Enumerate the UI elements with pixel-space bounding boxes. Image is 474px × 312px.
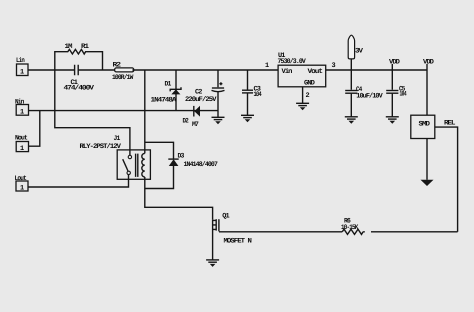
capacitor C1 [64,65,95,93]
terminal Lin [16,57,28,77]
wire Lout to relay switch bottom [28,175,129,188]
wire Nin line [29,110,219,112]
svg-text:220uF/25V: 220uF/25V [185,96,217,104]
ground under C5 [386,117,399,124]
svg-text:REL: REL [444,120,455,128]
wire Nout up to Nin [29,111,40,147]
svg-text:D1: D1 [165,81,172,89]
svg-text:1N4148/4007: 1N4148/4007 [184,161,218,169]
wire SMD to REL [435,120,458,232]
wire rail down to coil [144,70,146,153]
diode D3 [145,142,218,188]
relay core [136,154,138,177]
capacitor C5 [386,70,406,117]
relay J1 box [117,150,150,179]
wire U1 pin2 [302,87,304,103]
svg-text:SMD: SMD [419,121,430,129]
ground under C4 [345,117,358,124]
wire Lin branch down to relay switch [55,70,130,155]
zener diode D1 [151,70,182,111]
ground under C2 [212,111,225,125]
svg-text:Q1: Q1 [222,213,229,221]
svg-text:J1: J1 [114,135,121,143]
svg-text:D2: D2 [183,118,189,126]
svg-text:MOSFET N: MOSFET N [224,238,252,246]
battery 3V [348,35,364,59]
svg-text:Vin: Vin [282,68,293,76]
terminal Nin [15,99,29,117]
svg-text:1M: 1M [65,43,73,51]
svg-text:104: 104 [254,91,262,99]
resistor R6 [341,218,363,235]
terminal Lout [15,175,29,193]
power flag VDD right [423,59,434,116]
diode D2 [183,106,201,129]
regulator U1 [265,52,336,88]
ground under U1 pin2 [296,103,309,110]
wire SMD bottom arrow [421,139,434,187]
capacitor C2 [185,70,225,111]
ground under C3 [241,115,254,122]
terminal Nout [15,135,29,154]
svg-text:VDD: VDD [389,59,400,67]
relay J1 labels [80,135,122,151]
svg-text:RLY-2PST/12V: RLY-2PST/12V [80,143,122,151]
wire rail R2 to U1 [132,69,278,71]
wire battery to C4 [350,59,352,117]
svg-text:D3: D3 [178,153,185,161]
svg-text:VDD: VDD [423,59,434,67]
svg-text:GND: GND [304,80,315,88]
ground under Q1 [206,260,219,267]
svg-text:1N4748A: 1N4748A [151,97,178,105]
relay switch contacts [123,155,132,174]
wire gate line [219,231,458,233]
wire rail U1 out [326,69,428,71]
resistor R1 [55,43,103,70]
svg-text:M7: M7 [192,121,199,129]
svg-text:R1: R1 [81,43,89,51]
svg-text:Vout: Vout [308,68,323,76]
svg-text:100R/1W: 100R/1W [112,74,134,82]
svg-text:474/400V: 474/400V [64,85,95,93]
IC SMD [411,115,435,138]
transistor Q1 [213,213,252,260]
capacitor C3 [242,70,262,115]
relay coil [142,153,145,177]
wire Lin to R2 [28,69,115,71]
power flag VDD [389,59,400,71]
wire coil bottom to Q1 drain [145,177,213,220]
capacitor C4 [345,86,383,101]
svg-text:10uF/10V: 10uF/10V [356,93,383,101]
svg-text:104: 104 [400,91,407,99]
resistor R2 [112,62,134,83]
